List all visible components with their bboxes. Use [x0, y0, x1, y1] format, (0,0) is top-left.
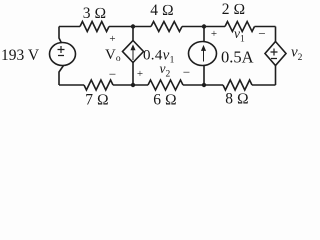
svg-text:−: −: [258, 26, 265, 41]
resistor R 6ohm: [148, 80, 183, 90]
plus-minus of source v2: [271, 49, 278, 59]
svg-text:−: −: [109, 67, 116, 82]
svg-text:6 Ω: 6 Ω: [153, 92, 177, 109]
svg-text:v2: v2: [291, 45, 303, 64]
svg-text:7 Ω: 7 Ω: [85, 92, 109, 109]
wire current branch upper (node B to circle): [203, 27, 205, 42]
wire bottom-right segment: [252, 84, 276, 86]
voltage source V1 193V ellipse: [50, 43, 76, 66]
svg-text:4 Ω: 4 Ω: [150, 2, 174, 19]
wire 3ohm to node A: [109, 26, 151, 28]
wire bottom-left segment: [59, 84, 84, 86]
wire middle branch lower (diamond to node C): [132, 63, 134, 86]
node D junction dot: [202, 83, 206, 87]
arrow of dependent current source 0.4v1: [131, 46, 135, 60]
node B junction dot: [202, 24, 206, 28]
resistor R 2ohm: [225, 22, 255, 32]
wire left rail upper stub: [59, 27, 62, 44]
wire top-left segment: [59, 26, 80, 28]
wire right rail lower stub: [275, 66, 277, 86]
wire top-right segment: [255, 26, 276, 28]
wire top rail: [50, 22, 287, 91]
svg-text:Vo: Vo: [105, 47, 121, 64]
dependent source diamond 0.4v1: [123, 41, 144, 63]
svg-text:8 Ω: 8 Ω: [225, 91, 249, 108]
wire middle branch upper (node A to diamond): [132, 27, 134, 41]
svg-text:−: −: [183, 65, 190, 80]
wire 8ohm to node D: [183, 84, 223, 86]
svg-text:+: +: [137, 68, 143, 80]
node A junction dot: [131, 24, 135, 28]
svg-text:3 Ω: 3 Ω: [83, 5, 107, 22]
arrow of current source 0.5A: [202, 46, 206, 61]
svg-text:193 V: 193 V: [1, 47, 40, 64]
resistor R 4ohm: [151, 22, 182, 32]
resistor R 7ohm: [84, 80, 113, 90]
svg-text:0.5A: 0.5A: [221, 48, 254, 67]
resistor R 3ohm: [80, 22, 109, 32]
svg-text:+: +: [109, 33, 115, 45]
svg-text:+: +: [211, 28, 217, 40]
wire right rail upper stub: [275, 27, 277, 43]
wire left rail lower stub: [59, 66, 64, 86]
wire 4ohm to node B: [182, 26, 225, 28]
plus-minus of source 193V: [58, 46, 65, 56]
dependent source diamond v2: [265, 42, 286, 66]
node C junction dot: [131, 83, 135, 87]
svg-text:2 Ω: 2 Ω: [222, 1, 246, 18]
wire 6ohm to node C: [113, 84, 148, 86]
current source I1 0.5A ellipse: [189, 42, 217, 66]
wire current branch lower (circle to node D): [203, 66, 205, 86]
resistor R 8ohm: [223, 80, 252, 90]
